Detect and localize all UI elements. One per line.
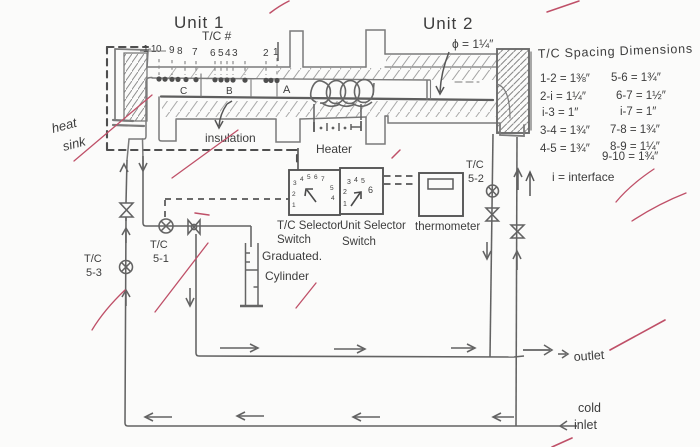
interface arrow [526,172,534,196]
flange tab up #2 [366,30,385,67]
dashes to thermometer [384,176,416,184]
inlet arrowhead at right [560,421,567,430]
svg-text:1: 1 [292,202,296,209]
svg-text:5-6 = 1¾″: 5-6 = 1¾″ [611,72,661,84]
svg-text:5: 5 [361,178,365,185]
svg-text:5: 5 [307,174,311,181]
svg-text:4: 4 [225,48,231,59]
end cap lower lip [500,123,524,136]
heater coil [311,79,375,107]
circle-X valve T/C 5-1 [159,219,173,233]
svg-text:thermometer: thermometer [415,221,480,233]
svg-text:6: 6 [314,174,318,181]
heat sink red label [50,115,89,154]
heavy inner line (pipe bore bottom) [161,97,493,101]
svg-text:Switch: Switch [342,236,376,248]
up arrow [516,252,518,270]
heater leads and terminal marks [314,104,361,132]
T/C 5-2 label [466,159,484,185]
mid line y67 under unit2 [385,66,497,68]
svg-text:Unit 2: Unit 2 [423,14,473,33]
flange tab down #1 [276,119,300,142]
svg-text:2: 2 [343,189,347,196]
flange tab up #1 [290,31,303,67]
thermometer box [419,173,463,216]
svg-text:5-3: 5-3 [86,267,102,279]
svg-text:1-2 = 1⅜″: 1-2 = 1⅜″ [540,73,590,85]
up arrow [125,229,127,243]
up arrow [125,291,127,306]
svg-text:8: 8 [177,46,183,57]
feed into cylinder [250,226,252,247]
svg-text:5-2: 5-2 [468,173,484,185]
svg-text:B: B [226,86,233,97]
heat sink hatched slab [124,53,147,121]
svg-text:5: 5 [218,48,224,59]
svg-text:A: A [283,84,291,96]
inlet riser right [516,137,517,426]
box labels [277,220,480,248]
svg-text:Switch: Switch [277,234,311,246]
inlet flow arrows (pointing left) [146,416,172,418]
svg-text:T/C: T/C [150,239,168,251]
svg-text:3-4 = 1¾″: 3-4 = 1¾″ [540,125,590,137]
lead from dashed box into TC selector [297,148,299,170]
outlet drain from end cap [490,134,493,357]
svg-text:inlet: inlet [574,418,597,432]
svg-text:6: 6 [368,185,373,195]
centerline dashes in unit2 cavity [455,81,479,83]
bottom hatch band [162,101,497,117]
drain from unit1 left [143,160,146,226]
svg-text:T/C Selector: T/C Selector [277,220,341,232]
flange tab down #2 [366,116,385,144]
svg-text:C: C [180,86,187,97]
top hatch band unit1 [278,68,430,79]
drain leg [142,139,145,160]
thermocouple leader dashes [159,58,277,75]
thermocouple dots on pipe [156,76,279,83]
svg-text:6: 6 [210,48,216,59]
svg-text:insulation: insulation [205,131,256,145]
svg-text:9-10 = 1¾″: 9-10 = 1¾″ [602,151,658,163]
svg-text:i = interface: i = interface [552,170,615,184]
svg-text:1-10: 1-10 [143,44,162,55]
circle-X valve T/C 5-3 [120,261,133,274]
svg-text:4: 4 [331,195,335,202]
bore section dividers [200,74,202,96]
svg-text:3: 3 [347,179,351,186]
svg-text:i-7 = 1″: i-7 = 1″ [620,106,656,118]
horizontal to valves and cylinder [146,225,251,227]
svg-text:outlet: outlet [573,348,605,364]
svg-text:Graduated.: Graduated. [262,249,322,263]
svg-text:T/C #: T/C # [202,29,232,43]
bowtie valve [188,220,200,234]
svg-text:T/C: T/C [84,253,102,265]
svg-text:3: 3 [232,48,238,59]
small text labels left [84,239,322,283]
svg-text:ϕ = 1¼″: ϕ = 1¼″ [452,37,494,51]
inner end curve [497,84,510,118]
T/C selector switch box [289,170,340,215]
cold inlet line [128,425,577,427]
circle-X T/C 5-2 [487,185,499,197]
outlet flow arrows [220,347,256,349]
insulation dashed boundary box (unit 1) [107,47,297,167]
svg-text:6-7 = 1½″: 6-7 = 1½″ [616,90,666,102]
thermocouple line (inner pipe top) [152,78,430,80]
svg-text:Cylinder: Cylinder [265,269,309,283]
svg-text:4-5 = 1¾″: 4-5 = 1¾″ [540,143,590,155]
svg-text:7: 7 [192,47,198,58]
svg-text:cold: cold [578,401,601,415]
Unit selector switch box [340,168,383,214]
svg-text:5: 5 [330,185,334,192]
svg-text:7-8 = 1¾″: 7-8 = 1¾″ [610,124,660,136]
svg-text:5-1: 5-1 [153,253,169,265]
end cap [497,49,529,133]
heat sink outer outline [115,49,148,67]
top outer line unit 1 [147,66,290,68]
T/C numbers row [143,44,279,59]
svg-text:2: 2 [292,191,296,198]
down arrow [486,242,488,258]
svg-text:7: 7 [321,176,325,183]
hourglass valve [486,208,499,221]
hourglass valve [511,225,524,238]
bottom outer line unit1 [176,118,276,120]
graduated cylinder [240,243,263,306]
bore right end [426,81,428,100]
svg-text:2-i = 1¼″: 2-i = 1¼″ [540,91,586,103]
svg-text:9: 9 [169,45,175,56]
bottom outer line unit 2 [385,116,499,123]
svg-text:4: 4 [300,176,304,183]
riser left (cold water up) [126,160,127,203]
outlet line [199,356,514,357]
svg-text:1: 1 [343,201,347,208]
drain down from bowtie [196,234,199,356]
dashed bus lower (from T/C 5-1 to box) [165,199,289,217]
heat sink foot / channel [146,77,152,82]
svg-text:4: 4 [354,177,358,184]
svg-text:Heater: Heater [316,142,352,156]
hourglass valve on riser [120,203,133,217]
up arrow [517,170,519,190]
riser leg down-left [127,139,129,160]
phi arrow [436,52,449,94]
svg-text:2: 2 [263,48,269,59]
letters in bore [180,84,291,97]
svg-text:3: 3 [293,180,297,187]
top hatch bands unit2 [386,55,497,67]
svg-text:i-3 = 1″: i-3 = 1″ [542,107,578,119]
svg-text:T/C: T/C [466,159,484,171]
svg-text:Unit Selector: Unit Selector [340,220,406,232]
top outer line unit 2 [385,53,497,55]
